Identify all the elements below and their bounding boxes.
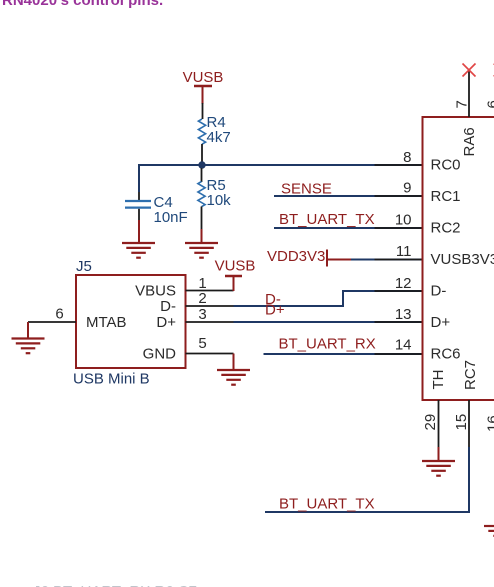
svg-text:VDD3V3: VDD3V3: [267, 248, 325, 265]
svg-text:D+: D+: [265, 302, 285, 319]
wire R4 to junction: [201, 144, 203, 165]
svg-text:BT_UART_TX: BT_UART_TX: [279, 496, 375, 513]
resistor R5: [198, 177, 231, 209]
svg-text:RN4020's control pins.: RN4020's control pins.: [2, 0, 163, 9]
pin 6 J5 MTAB: [28, 306, 76, 323]
net label VDD3V3 with tick: [267, 248, 327, 267]
svg-text:29: 29: [422, 414, 439, 431]
power flag VUSB top: [183, 69, 224, 104]
svg-text:4k7: 4k7: [207, 129, 231, 146]
svg-text:10nF: 10nF: [154, 209, 188, 226]
wire BT_UART_TX to RC2: [274, 227, 423, 229]
svg-text:VUSB: VUSB: [183, 69, 224, 86]
svg-text:J6 BT_UART_RX R6 C7: J6 BT_UART_RX R6 C7: [33, 583, 197, 587]
wire D- route to pin 12: [234, 291, 423, 306]
resistor R4: [198, 114, 230, 146]
pin 5 J5: [186, 335, 234, 354]
svg-text:RC1: RC1: [431, 188, 461, 205]
svg-text:RC6: RC6: [431, 346, 461, 363]
pin 3 J5: [186, 306, 234, 323]
connector J5 box: [76, 275, 186, 368]
svg-text:12: 12: [395, 275, 412, 292]
node junction R4/R5/C4: [198, 161, 205, 168]
svg-text:9: 9: [403, 180, 411, 197]
svg-text:VUSB: VUSB: [215, 258, 256, 275]
pin 29 TH (bottom pin): [422, 370, 447, 449]
svg-text:D-: D-: [160, 298, 176, 315]
wire TH to ground: [438, 447, 440, 461]
capacitor C4: [125, 194, 188, 226]
svg-text:8: 8: [403, 149, 411, 166]
svg-text:D+: D+: [431, 314, 451, 331]
IC box (partial, cut at right): [422, 117, 494, 400]
wire BT_UART_RX to RC6: [264, 353, 423, 355]
svg-text:13: 13: [395, 306, 412, 323]
svg-text:10k: 10k: [207, 192, 232, 209]
svg-text:6: 6: [485, 100, 494, 108]
svg-text:TH: TH: [430, 370, 447, 390]
pin 15 RC7 (bottom pin): [453, 360, 479, 448]
svg-text:D+: D+: [156, 314, 176, 331]
svg-text:15: 15: [453, 414, 470, 431]
pin 2 J5: [186, 290, 234, 307]
svg-text:USB Mini B: USB Mini B: [73, 371, 150, 388]
svg-text:SENSE: SENSE: [281, 181, 332, 198]
svg-text:D-: D-: [431, 283, 447, 300]
wire C4 to ground: [138, 209, 140, 243]
svg-text:10: 10: [395, 212, 412, 229]
power flag VUSB at J5 pin1: [215, 258, 256, 292]
svg-text:VUSB3V3: VUSB3V3: [431, 251, 494, 268]
svg-text:GND: GND: [143, 346, 177, 363]
wire VDD3V3 to VUSB3V3 pin: [327, 259, 352, 261]
svg-text:VBUS: VBUS: [135, 283, 176, 300]
wire net to RC0 (horizontal): [139, 164, 423, 166]
svg-text:RC2: RC2: [431, 220, 461, 237]
wire junction to R5: [201, 168, 203, 182]
svg-text:16: 16: [485, 415, 494, 432]
wire BT_UART_TX from RC7: [265, 447, 469, 512]
wire pin6 to ground: [27, 322, 29, 339]
ground under C4: [122, 243, 155, 258]
ground at MTAB: [12, 339, 45, 354]
svg-text:5: 5: [198, 335, 206, 352]
svg-text:RA6: RA6: [461, 127, 478, 156]
ground partial bottom right: [484, 526, 494, 536]
svg-text:2: 2: [198, 290, 206, 307]
wire R5 to ground: [201, 207, 203, 244]
pin 1 J5: [186, 275, 234, 292]
svg-text:RC7: RC7: [462, 360, 479, 390]
svg-text:RC0: RC0: [431, 157, 461, 174]
svg-text:7: 7: [454, 100, 471, 108]
wire junction to C4: [138, 164, 140, 200]
svg-text:14: 14: [395, 337, 412, 354]
svg-text:BT_UART_RX: BT_UART_RX: [279, 336, 376, 353]
wire pin5 to ground: [233, 354, 235, 371]
svg-text:J5: J5: [76, 258, 92, 275]
svg-text:11: 11: [396, 243, 412, 260]
wire VUSB to R4: [202, 103, 204, 119]
ground under TH: [422, 461, 455, 476]
ground under R5: [185, 243, 218, 258]
wire D+ route to pin 13: [234, 321, 423, 323]
no-connect X on pin 7: [463, 64, 476, 77]
pin 7 RA6 (top pin): [454, 70, 479, 157]
svg-text:6: 6: [55, 306, 63, 323]
wire SENSE to RC1: [274, 195, 423, 197]
pin 6 of IC (mostly offscreen): [485, 64, 494, 109]
svg-text:MTAB: MTAB: [86, 314, 127, 331]
svg-text:BT_UART_TX: BT_UART_TX: [279, 211, 375, 228]
ground under J5 GND: [217, 370, 250, 385]
svg-text:3: 3: [198, 306, 206, 323]
